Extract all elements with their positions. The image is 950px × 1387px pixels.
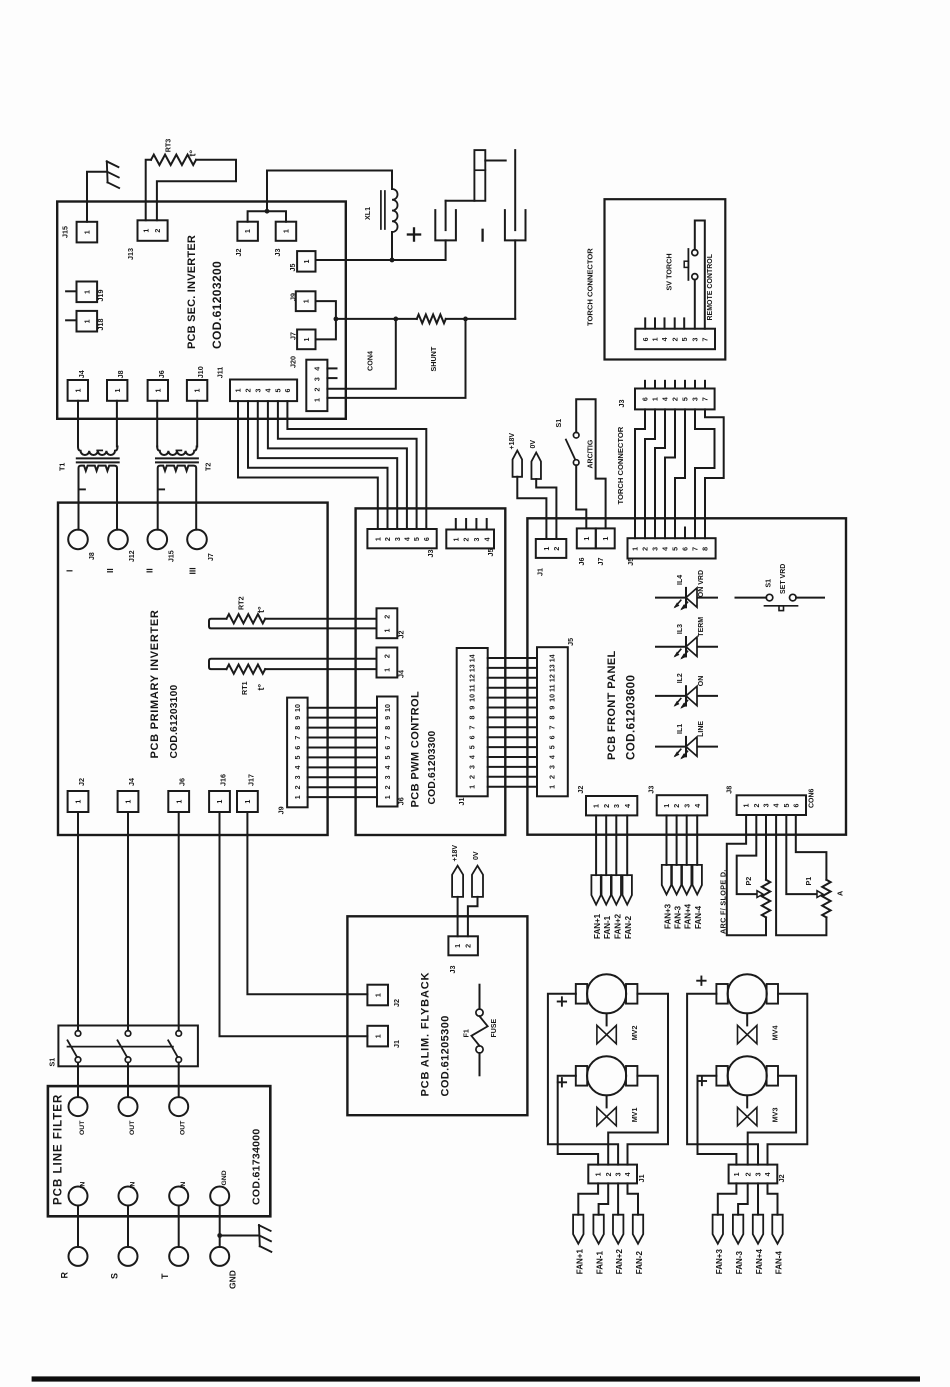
svg-text:0V: 0V	[530, 440, 537, 449]
svg-text:J2: J2	[396, 631, 405, 639]
svg-text:IL2: IL2	[677, 673, 684, 683]
svg-text:TORCH CONNECTOR: TORCH CONNECTOR	[585, 248, 594, 326]
connector J3 (torch 7 pin)	[635, 389, 715, 410]
svg-text:J6: J6	[577, 558, 586, 566]
svg-text:1: 1	[602, 537, 610, 541]
wiring loop MV3	[698, 1076, 737, 1165]
svg-text:3: 3	[691, 337, 699, 341]
connector J2 (front panel 4 pin)	[586, 796, 637, 815]
connector J2 (flyback)	[367, 985, 388, 1006]
svg-text:1: 1	[663, 804, 671, 808]
+18V test point (pwm)	[513, 451, 523, 477]
svg-text:II: II	[145, 568, 155, 573]
connector J1 (front panel 2 pin)	[536, 539, 567, 558]
svg-text:1: 1	[114, 389, 122, 393]
svg-text:J6: J6	[396, 797, 405, 805]
svg-text:3: 3	[473, 537, 481, 541]
+ polarity marks MV4/MV3	[697, 980, 705, 982]
svg-text:PCB SEC. INVERTER: PCB SEC. INVERTER	[186, 235, 198, 349]
svg-text:2: 2	[553, 547, 561, 551]
svg-text:FAN-4: FAN-4	[775, 1251, 784, 1275]
connector J6 (front panel)	[577, 528, 596, 548]
svg-text:3: 3	[294, 775, 302, 779]
fan terminals below J2	[718, 1183, 737, 1214]
svg-text:1: 1	[374, 1034, 382, 1038]
svg-text:J3: J3	[273, 249, 282, 257]
svg-text:TERM: TERM	[698, 617, 705, 637]
connector J4 (pwm therm)	[377, 648, 398, 678]
svg-text:J4: J4	[396, 670, 405, 678]
winding terminal I / J8	[68, 530, 88, 550]
LED IL2	[656, 695, 717, 697]
TORCH CONNECTOR box	[605, 199, 726, 359]
svg-text:2: 2	[463, 537, 471, 541]
connector J15	[77, 222, 98, 243]
connector J7 (front panel)	[596, 528, 615, 548]
svg-text:6: 6	[468, 735, 476, 739]
svg-text:5: 5	[682, 397, 690, 401]
+ polarity marks MV2/MV1	[558, 1001, 566, 1003]
svg-text:MV1: MV1	[630, 1108, 639, 1123]
svg-text:J3: J3	[647, 786, 656, 794]
svg-text:1: 1	[244, 800, 252, 804]
connector J5 (pwm 4 pin)	[446, 530, 494, 549]
svg-text:1: 1	[244, 229, 252, 233]
svg-text:R: R	[59, 1272, 69, 1279]
svg-text:PCB ALIM. FLYBACK: PCB ALIM. FLYBACK	[419, 972, 431, 1097]
potentiometer P1 circuit	[776, 815, 826, 935]
PCB PRIMARY INVERTER board outline	[58, 503, 328, 835]
svg-text:2: 2	[468, 775, 476, 779]
svg-text:1: 1	[83, 290, 91, 294]
svg-text:J2: J2	[392, 999, 401, 1007]
ground (top left)	[87, 172, 107, 222]
svg-text:MV4: MV4	[771, 1026, 780, 1041]
svg-text:1: 1	[313, 398, 321, 402]
svg-text:REMOTE CONTROL: REMOTE CONTROL	[707, 253, 714, 320]
wires CON4 to J20	[327, 319, 395, 389]
svg-text:4: 4	[384, 765, 392, 769]
svg-text:14: 14	[549, 654, 557, 662]
thermistor RT2	[265, 618, 376, 620]
svg-text:8: 8	[702, 547, 710, 551]
svg-text:J6: J6	[157, 370, 166, 378]
svg-text:2: 2	[384, 654, 392, 658]
switch S1 ARC/TIG	[573, 432, 579, 438]
svg-text:J19: J19	[96, 290, 105, 302]
- output terminal	[505, 210, 526, 240]
svg-text:1: 1	[283, 229, 291, 233]
svg-text:8: 8	[384, 726, 392, 730]
svg-text:II: II	[105, 568, 115, 573]
connector J8 CON6	[737, 795, 806, 815]
svg-text:J1: J1	[637, 1174, 646, 1182]
inductor XL1	[392, 189, 398, 232]
svg-text:J5: J5	[288, 264, 297, 272]
svg-text:6: 6	[642, 337, 650, 341]
connector J5 (sec)	[297, 251, 315, 272]
connector J3 (sec)	[276, 222, 297, 241]
svg-text:GND: GND	[227, 1270, 237, 1289]
svg-text:3: 3	[652, 547, 660, 551]
connector J2 (fan)	[729, 1165, 778, 1184]
svg-text:I: I	[65, 570, 75, 572]
connector J11	[230, 380, 297, 402]
svg-text:1: 1	[74, 389, 82, 393]
svg-text:14: 14	[468, 654, 476, 662]
svg-text:1: 1	[384, 629, 392, 633]
svg-text:FAN+2: FAN+2	[615, 1249, 624, 1275]
svg-text:ON: ON	[698, 676, 705, 687]
svg-text:J4: J4	[127, 778, 136, 786]
svg-text:IN: IN	[180, 1182, 187, 1189]
svg-text:1: 1	[294, 795, 302, 799]
svg-text:J7: J7	[289, 332, 298, 340]
svg-text:8: 8	[294, 726, 302, 730]
svg-text:J1: J1	[535, 568, 544, 576]
torch connector 7 pin	[635, 329, 715, 350]
svg-text:FAN+4: FAN+4	[684, 903, 693, 929]
svg-text:FAN+1: FAN+1	[575, 1249, 584, 1275]
bottom rule bar	[32, 1376, 920, 1381]
svg-text:4: 4	[662, 547, 670, 551]
svg-text:J8: J8	[725, 786, 734, 794]
svg-text:COD.61734000: COD.61734000	[251, 1128, 263, 1205]
svg-text:2: 2	[384, 537, 392, 541]
svg-text:2: 2	[384, 615, 392, 619]
0V test point (flyback)	[472, 866, 483, 897]
connector J1 (fan)	[588, 1165, 637, 1184]
svg-text:4: 4	[661, 337, 669, 341]
svg-text:ON VRD: ON VRD	[698, 570, 705, 597]
svg-text:5: 5	[783, 803, 791, 807]
svg-text:13: 13	[549, 664, 557, 672]
svg-text:t°: t°	[256, 606, 266, 613]
transformer T2	[157, 447, 197, 456]
svg-text:1: 1	[154, 389, 162, 393]
svg-text:T1: T1	[58, 463, 67, 471]
svg-text:10: 10	[294, 704, 302, 712]
svg-text:A: A	[835, 891, 844, 896]
svg-text:4: 4	[624, 1172, 632, 1176]
svg-text:+18V: +18V	[509, 433, 516, 450]
svg-text:4: 4	[773, 803, 781, 807]
svg-text:RT3: RT3	[163, 139, 172, 153]
svg-text:1: 1	[374, 537, 382, 541]
svg-text:7: 7	[549, 725, 557, 729]
svg-text:J3: J3	[448, 966, 457, 974]
svg-text:T2: T2	[204, 463, 213, 471]
connector J18	[66, 319, 76, 321]
fan terminals FAN1/FAN2	[595, 815, 597, 875]
fan motor MV4	[728, 974, 767, 1013]
svg-text:5: 5	[294, 756, 302, 760]
wiring loop MV2	[548, 994, 618, 1165]
svg-text:1: 1	[83, 319, 91, 323]
wires switch to filter	[77, 1063, 79, 1098]
junction node	[265, 209, 270, 214]
svg-text:10: 10	[468, 694, 476, 702]
svg-text:J1: J1	[392, 1040, 401, 1048]
svg-text:7: 7	[384, 736, 392, 740]
svg-text:2: 2	[753, 803, 761, 807]
svg-text:RT1: RT1	[240, 681, 249, 695]
svg-text:J13: J13	[126, 248, 135, 260]
svg-text:SET VRD: SET VRD	[780, 564, 787, 594]
wire XL1 to output	[391, 232, 393, 260]
svg-text:P1: P1	[804, 877, 813, 886]
wires primary to mains switch	[77, 812, 79, 1031]
wire S1 to J7	[576, 399, 605, 528]
svg-text:MV3: MV3	[771, 1108, 780, 1123]
PCB FRONT PANEL board outline	[527, 518, 846, 834]
+ output terminal	[435, 210, 456, 240]
push button S1 SET VRD	[736, 597, 767, 599]
svg-text:OUT: OUT	[129, 1120, 136, 1135]
svg-text:J3: J3	[617, 400, 626, 408]
svg-text:PCB PRIMARY INVERTER: PCB PRIMARY INVERTER	[149, 609, 161, 758]
svg-text:1: 1	[652, 337, 660, 341]
PCB SEC. INVERTER board outline	[57, 202, 346, 419]
svg-text:6: 6	[294, 746, 302, 750]
svg-text:1: 1	[743, 803, 751, 807]
winding terminal II / J15	[148, 530, 168, 550]
svg-text:3: 3	[549, 765, 557, 769]
connector J13	[138, 220, 168, 241]
filter OUT terminals	[69, 1097, 88, 1116]
connector J1 (pwm 14 pin)	[457, 648, 488, 796]
svg-text:9: 9	[549, 706, 557, 710]
svg-text:PCB FRONT PANEL: PCB FRONT PANEL	[606, 650, 618, 760]
connector J3 (front panel 4 pin)	[657, 795, 708, 815]
svg-text:1: 1	[302, 299, 310, 303]
fan terminals below J1	[578, 1183, 598, 1214]
svg-text:3: 3	[313, 377, 321, 381]
svg-text:+18V: +18V	[452, 845, 459, 862]
svg-text:ARC F/ SLOPE D.: ARC F/ SLOPE D.	[719, 869, 728, 934]
svg-text:J18: J18	[96, 319, 105, 331]
svg-text:7: 7	[468, 725, 476, 729]
svg-text:4: 4	[468, 755, 476, 759]
svg-text:CON6: CON6	[808, 788, 815, 808]
potentiometer P2 circuit	[727, 815, 766, 935]
svg-text:J2: J2	[576, 786, 585, 794]
svg-text:4: 4	[294, 765, 302, 769]
svg-text:P2: P2	[744, 877, 753, 886]
wire J17 to flyback J2	[247, 812, 367, 994]
svg-text:ARC/TIG: ARC/TIG	[588, 439, 595, 468]
PCB LINE FILTER board outline	[48, 1086, 270, 1216]
svg-text:S1: S1	[766, 579, 773, 588]
svg-text:J16: J16	[219, 774, 228, 786]
svg-text:J8: J8	[89, 552, 96, 560]
connector J9 (10 pin)	[287, 698, 308, 808]
svg-text:2: 2	[673, 804, 681, 808]
svg-text:FAN+4: FAN+4	[755, 1249, 764, 1275]
svg-text:9: 9	[294, 716, 302, 720]
connector J5 (front panel 14 pin)	[537, 647, 568, 796]
svg-text:J15: J15	[169, 550, 176, 562]
svg-text:12: 12	[549, 674, 557, 682]
winding terminal II / J12	[108, 530, 128, 550]
svg-text:2: 2	[313, 388, 321, 392]
connector J19	[66, 290, 76, 292]
svg-text:FAN-1: FAN-1	[596, 1251, 605, 1275]
fan motor MV2	[587, 974, 626, 1013]
wire J5 to + terminal	[316, 240, 446, 260]
svg-text:IL3: IL3	[677, 624, 684, 634]
svg-text:1: 1	[652, 397, 660, 401]
svg-text:8: 8	[468, 716, 476, 720]
svg-text:J2: J2	[77, 778, 86, 786]
svg-text:1: 1	[549, 785, 557, 789]
svg-text:5: 5	[275, 388, 283, 392]
wiring loop MV1	[558, 1076, 598, 1165]
mains switch S1	[58, 1026, 198, 1067]
svg-text:S1: S1	[48, 1058, 57, 1067]
svg-text:2: 2	[549, 775, 557, 779]
svg-text:10: 10	[384, 704, 392, 712]
transformer T1	[78, 447, 118, 456]
svg-text:IN: IN	[80, 1182, 87, 1189]
svg-text:1: 1	[194, 389, 202, 393]
svg-text:F1: F1	[461, 1029, 470, 1037]
svg-text:COD.61203300: COD.61203300	[427, 730, 438, 804]
svg-text:COD.61203200: COD.61203200	[210, 261, 224, 349]
svg-text:FAN+3: FAN+3	[715, 1249, 724, 1275]
svg-text:J2: J2	[777, 1174, 786, 1182]
svg-text:1: 1	[175, 800, 183, 804]
svg-text:1: 1	[216, 800, 224, 804]
svg-text:1: 1	[593, 804, 601, 808]
svg-text:1: 1	[452, 537, 460, 541]
LED IL1	[656, 746, 717, 748]
wire J16 to flyback J1	[220, 812, 368, 1036]
svg-text:1: 1	[583, 537, 591, 541]
svg-text:MV2: MV2	[630, 1026, 639, 1041]
svg-text:6: 6	[549, 735, 557, 739]
svg-text:11: 11	[549, 684, 557, 692]
svg-text:FAN-4: FAN-4	[694, 905, 703, 929]
svg-text:S1: S1	[554, 419, 563, 428]
svg-text:5: 5	[681, 337, 689, 341]
svg-text:1: 1	[595, 1172, 603, 1176]
svg-text:4: 4	[764, 1172, 772, 1176]
electrode holder symbol	[446, 200, 475, 202]
svg-text:2: 2	[465, 944, 473, 948]
svg-text:J8: J8	[116, 370, 125, 378]
connector J2 (pwm therm)	[377, 608, 398, 638]
svg-text:4: 4	[313, 367, 321, 371]
svg-text:9: 9	[468, 706, 476, 710]
svg-text:5: 5	[413, 537, 421, 541]
connector J6 (pwm 10 pin)	[377, 697, 398, 807]
svg-text:J4: J4	[77, 370, 86, 378]
svg-text:J3: J3	[426, 550, 435, 558]
wire ladder J3 to J5 (8p)	[635, 409, 645, 538]
svg-text:FUSE: FUSE	[491, 1019, 498, 1038]
svg-text:CON4: CON4	[366, 351, 375, 371]
svg-text:10: 10	[549, 694, 557, 702]
svg-text:LINE: LINE	[698, 721, 705, 737]
svg-text:6: 6	[642, 397, 650, 401]
svg-text:2: 2	[384, 785, 392, 789]
thermistor RT1	[209, 659, 377, 669]
svg-text:1: 1	[384, 795, 392, 799]
svg-text:2: 2	[245, 388, 253, 392]
svg-text:1: 1	[303, 259, 311, 263]
svg-text:FAN+2: FAN+2	[613, 913, 622, 939]
svg-text:J9: J9	[276, 806, 285, 814]
svg-text:7: 7	[692, 547, 700, 551]
svg-text:1: 1	[374, 993, 382, 997]
svg-text:3: 3	[683, 804, 691, 808]
svg-text:COD.61205300: COD.61205300	[439, 1015, 451, 1096]
svg-text:2: 2	[605, 1172, 613, 1176]
svg-text:J11: J11	[215, 367, 224, 379]
connector J3 (pwm 6 pin)	[367, 529, 436, 548]
wire - terminal to shunt	[514, 240, 516, 319]
svg-text:3: 3	[613, 804, 621, 808]
svg-text:1: 1	[454, 944, 462, 948]
svg-text:PCB PWM CONTROL: PCB PWM CONTROL	[409, 691, 421, 808]
svg-text:J7: J7	[596, 558, 605, 566]
svg-text:6: 6	[423, 537, 431, 541]
connector J5 (front panel 8 pin)	[628, 538, 716, 558]
svg-text:4: 4	[265, 388, 273, 392]
connector J1 (flyback)	[367, 1026, 388, 1047]
connector J7 (sec)	[297, 330, 315, 350]
svg-text:SHUNT: SHUNT	[429, 346, 438, 371]
wire J2/J3 to XL1	[248, 211, 286, 222]
svg-text:4: 4	[694, 804, 702, 808]
svg-text:J15: J15	[61, 226, 70, 238]
connector J9 (sec)	[296, 291, 316, 311]
LED IL4	[656, 597, 717, 599]
fan motor MV3	[728, 1056, 767, 1095]
svg-text:3: 3	[615, 1172, 623, 1176]
filter IN terminals	[69, 1187, 88, 1206]
wire bundle J11 to PWM J3	[238, 401, 378, 529]
svg-text:IL4: IL4	[677, 575, 684, 585]
svg-text:7: 7	[701, 337, 709, 341]
fuse F1	[479, 985, 481, 1009]
svg-text:7: 7	[702, 397, 710, 401]
input terminals R S T GND	[77, 1206, 79, 1247]
svg-text:1: 1	[733, 1172, 741, 1176]
svg-text:4: 4	[404, 537, 412, 541]
svg-text:COD.61203600: COD.61203600	[624, 675, 637, 760]
connector J20	[306, 360, 327, 411]
svg-text:3: 3	[755, 1172, 763, 1176]
connectors J4 J8 J6 J10 (sec bottom)	[68, 380, 88, 401]
wire J9/J7 junction	[316, 301, 336, 339]
svg-text:1: 1	[125, 800, 133, 804]
svg-text:1: 1	[543, 547, 551, 551]
svg-text:FAN-3: FAN-3	[735, 1251, 744, 1275]
svg-text:J5: J5	[626, 558, 635, 566]
svg-text:1: 1	[632, 547, 640, 551]
svg-text:2: 2	[672, 397, 680, 401]
fan terminals FAN3/FAN4	[666, 815, 668, 865]
svg-text:11: 11	[468, 684, 476, 692]
svg-text:SV TORCH: SV TORCH	[665, 253, 674, 290]
svg-text:4: 4	[549, 755, 557, 759]
svg-text:FAN+3: FAN+3	[664, 903, 673, 929]
svg-text:III: III	[188, 567, 198, 574]
svg-text:2: 2	[671, 337, 679, 341]
svg-text:OUT: OUT	[180, 1120, 187, 1135]
